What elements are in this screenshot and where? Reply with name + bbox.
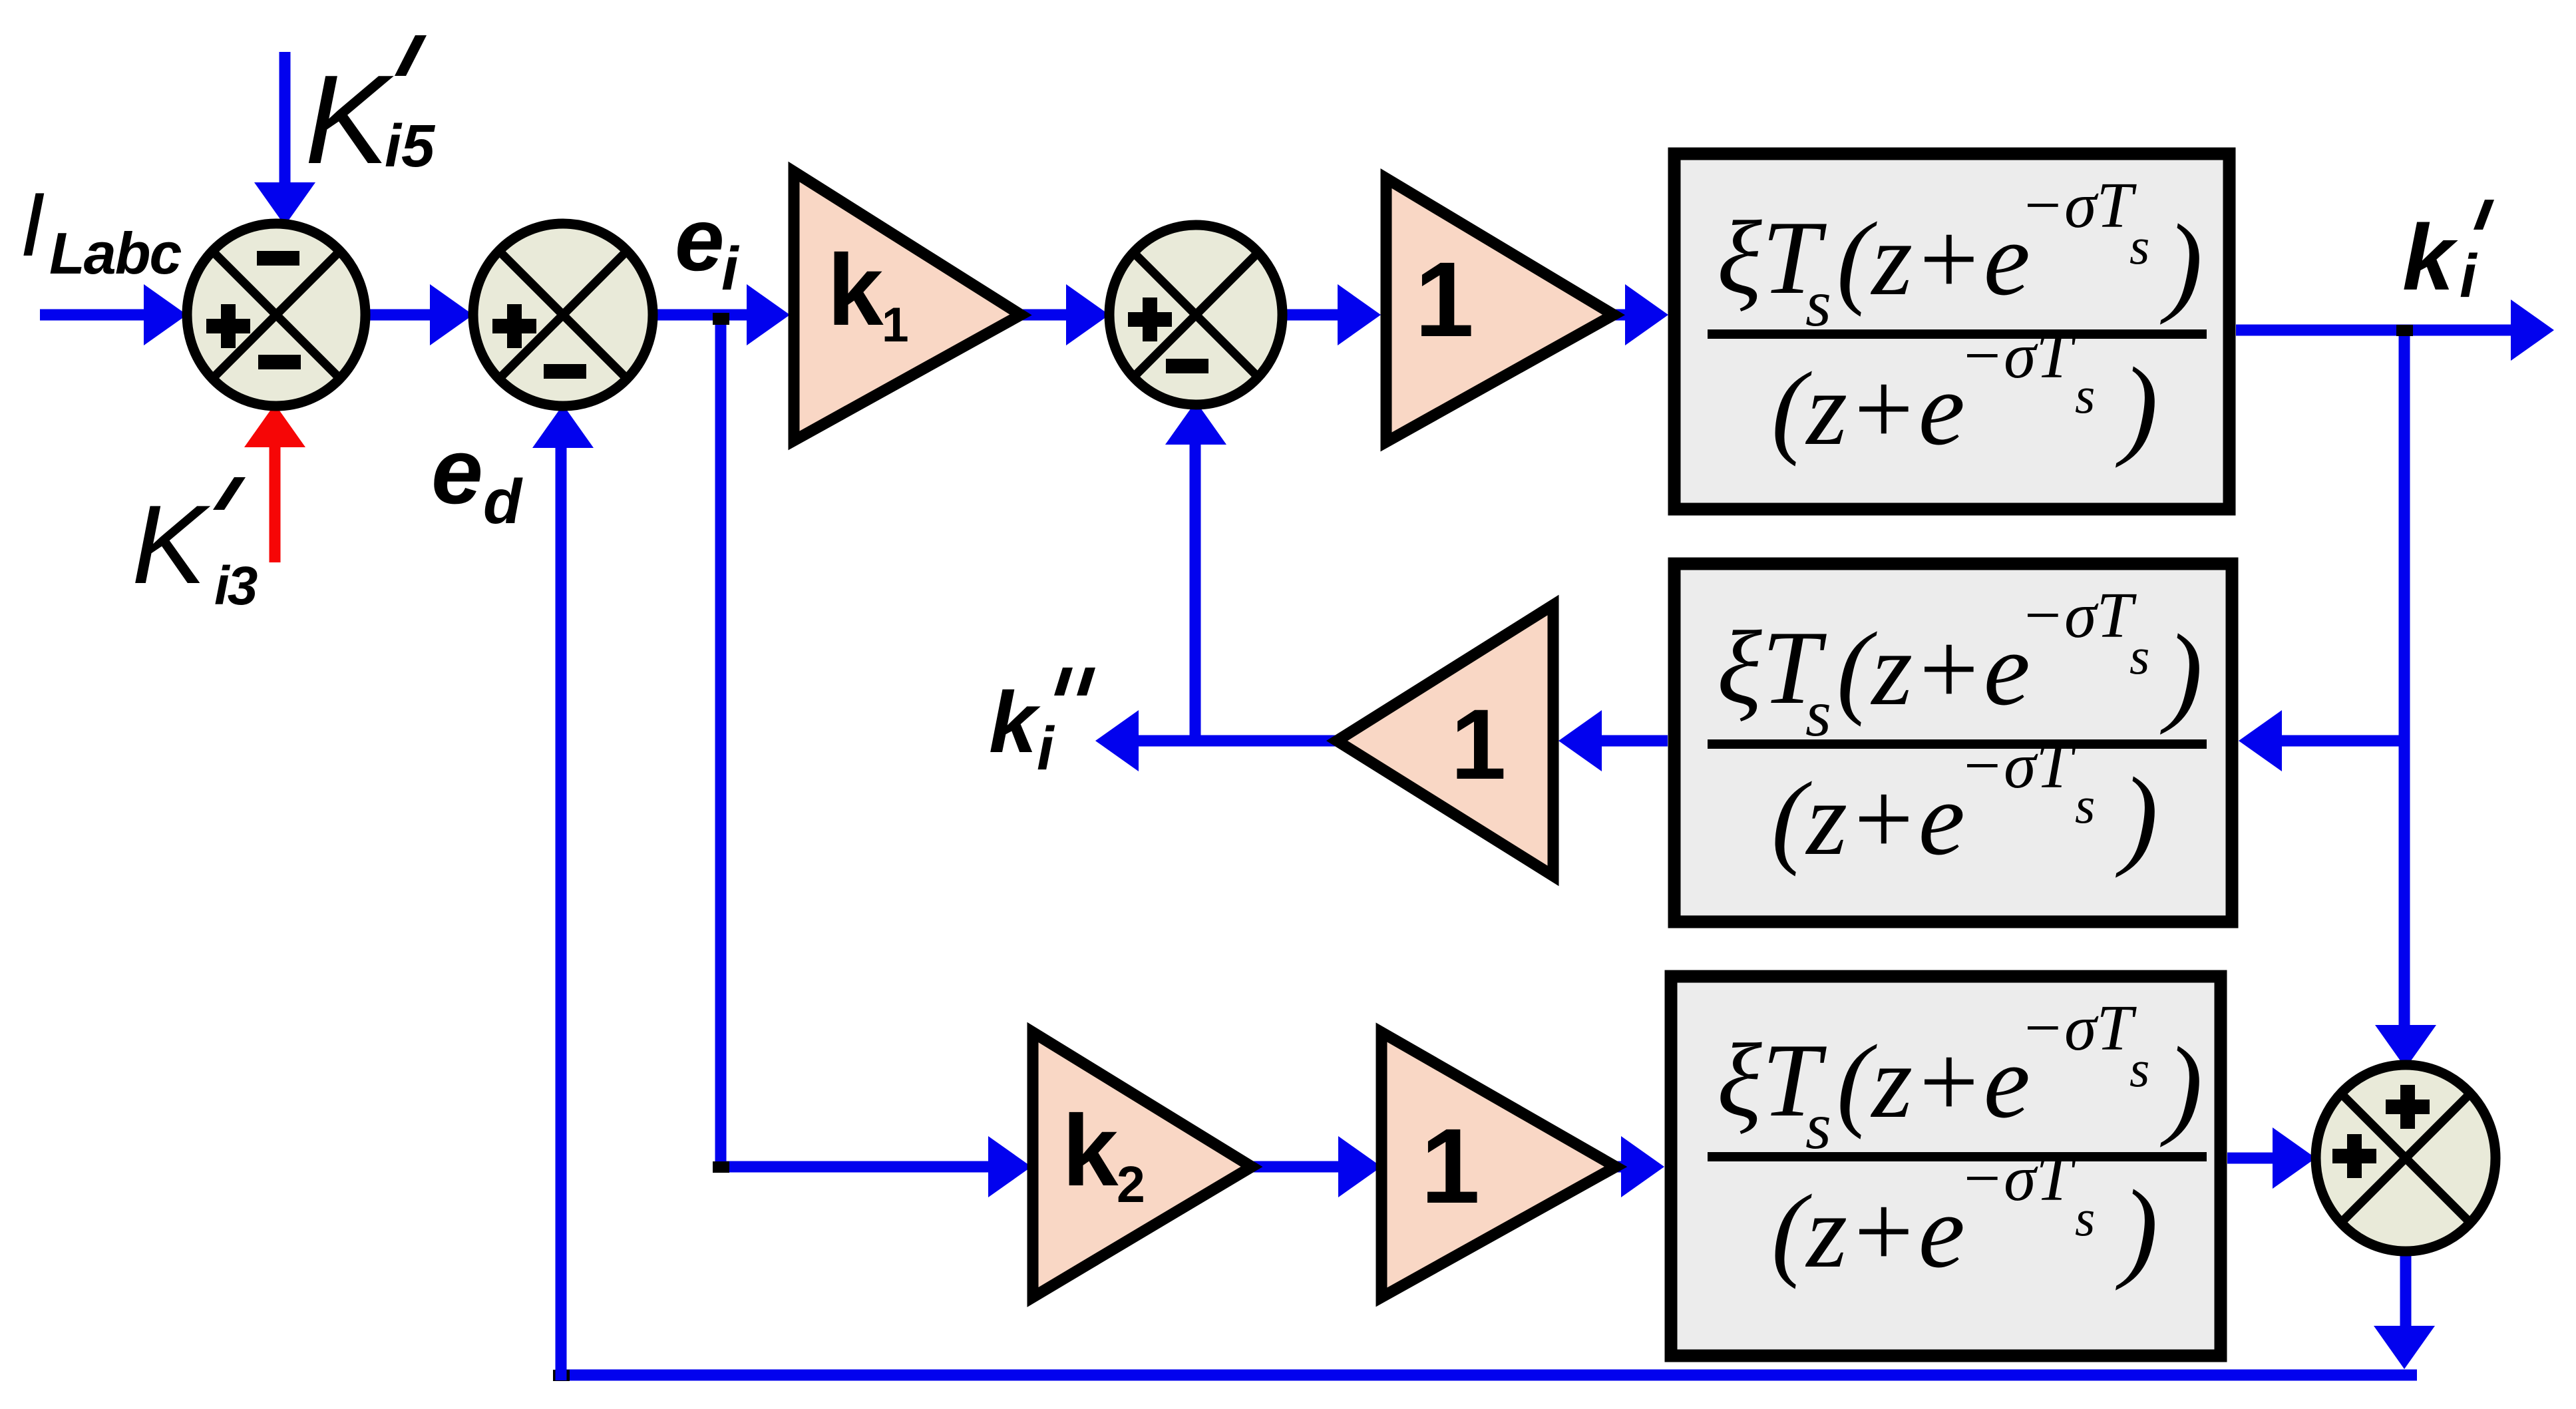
- node ki' branch junction: [2396, 325, 2413, 336]
- svg-text:(z+e: (z+e: [1771, 1173, 1965, 1290]
- svg-text:s: s: [2075, 776, 2095, 834]
- arrow into block3 left: [1621, 1136, 1664, 1197]
- node bottom left corner: [553, 1370, 570, 1381]
- summing junction S1: [187, 224, 365, 406]
- wire k2 to T4: [1250, 1161, 1341, 1173]
- arrow into S2 bottom: [532, 405, 594, 448]
- svg-text:I: I: [20, 174, 45, 275]
- block3 transfer function: [1671, 976, 2221, 1356]
- svg-text:1: 1: [882, 298, 909, 352]
- svg-text:(z+e: (z+e: [1837, 1024, 2030, 1140]
- svg-text:−σT: −σT: [2020, 580, 2137, 652]
- wire block3 to S4: [2227, 1153, 2275, 1164]
- wire S4 output down: [2400, 1248, 2412, 1328]
- gain triangle k1: [794, 172, 1021, 441]
- wire T4 to block3: [1615, 1161, 1624, 1173]
- svg-text:1: 1: [1421, 1106, 1480, 1225]
- S3 minus bottom: [1166, 359, 1208, 373]
- arrow into block1 left: [1625, 284, 1668, 345]
- svg-text:s: s: [1805, 266, 1831, 340]
- svg-text:): ): [2116, 345, 2158, 469]
- svg-text:): ): [2160, 1024, 2203, 1148]
- svg-text:): ): [2160, 612, 2203, 735]
- arrow output right: [2511, 300, 2554, 361]
- wire T3 tip to ki'': [1139, 735, 1337, 747]
- wire right branch down to S4: [2399, 330, 2410, 1028]
- arrow into k1 left: [747, 284, 790, 345]
- svg-text:i: i: [2460, 242, 2478, 310]
- svg-text:s: s: [2129, 1040, 2149, 1098]
- svg-text:(z+e: (z+e: [1837, 201, 2030, 317]
- arrow into S2 left: [430, 284, 473, 345]
- S1 minus bottom: [258, 355, 301, 369]
- block2 transfer function: [1674, 564, 2232, 922]
- summing junction S2: [473, 224, 653, 406]
- S4 plus left: [2332, 1149, 2376, 1163]
- arrow into k2 left: [988, 1136, 1031, 1197]
- arrow into block2 right: [2239, 710, 2282, 771]
- arrow into S3 left: [1066, 284, 1109, 345]
- svg-text:−σT: −σT: [1960, 320, 2076, 392]
- S2 plus left: [492, 319, 536, 333]
- svg-text:s: s: [2075, 1189, 2095, 1247]
- wire S1 to S2: [365, 309, 433, 321]
- svg-text:s: s: [2129, 217, 2149, 275]
- svg-text:(z+e: (z+e: [1771, 351, 1965, 467]
- svg-text:i5: i5: [385, 113, 436, 180]
- wire left vertical up to S2 (ed): [556, 447, 567, 1380]
- svg-text:i: i: [721, 235, 740, 303]
- arrow ki'' left end: [1095, 710, 1139, 771]
- svg-text:d: d: [483, 467, 523, 537]
- arrow into S3 bottom: [1165, 401, 1226, 445]
- node ei branch junction: [713, 313, 729, 325]
- gain triangle 1 bottom (T4): [1381, 1032, 1616, 1297]
- S1 minus top: [257, 251, 299, 266]
- svg-text:−σT: −σT: [2020, 992, 2137, 1064]
- arrow into S1 top: [254, 182, 315, 226]
- svg-text:(z+e: (z+e: [1837, 611, 2030, 727]
- arrow into S1 left: [144, 284, 187, 345]
- svg-text:i3: i3: [214, 556, 258, 616]
- svg-text:): ): [2116, 1167, 2158, 1291]
- arrow down onto bottom line: [2374, 1326, 2435, 1369]
- red arrow into S1 bottom: [244, 404, 305, 447]
- svg-text:K: K: [132, 482, 211, 607]
- S1 plus left: [206, 319, 250, 333]
- arrow into S4 left: [2273, 1127, 2316, 1189]
- svg-text:s: s: [1805, 1089, 1831, 1163]
- block1 transfer function: [1674, 154, 2229, 509]
- svg-text:k: k: [1062, 1094, 1119, 1207]
- S3 plus left: [1128, 312, 1172, 327]
- summing junction S3: [1109, 225, 1282, 405]
- node k2 corner junction: [713, 1161, 729, 1173]
- wire S2 to k1: [653, 309, 748, 321]
- svg-text:): ): [2160, 202, 2203, 325]
- svg-text:K: K: [305, 49, 394, 190]
- arrow into T4 left: [1338, 1136, 1381, 1197]
- svg-text:2: 2: [1117, 1156, 1145, 1213]
- S4 plus top: [2386, 1100, 2430, 1114]
- arrow into T2 left: [1338, 284, 1381, 345]
- svg-text:−σT: −σT: [1960, 1143, 2076, 1215]
- gain triangle k2: [1033, 1032, 1252, 1297]
- wire block1 output ki': [2236, 325, 2512, 336]
- svg-text:Labc: Labc: [49, 220, 181, 286]
- gain triangle 1 middle left-pointing (T3): [1337, 605, 1553, 876]
- svg-text:k: k: [989, 674, 1041, 771]
- svg-text:e: e: [675, 190, 725, 290]
- arrow into T3 base: [1559, 710, 1602, 771]
- wire ILabc input: [40, 309, 145, 321]
- svg-text:): ): [2116, 755, 2158, 879]
- wire block2 to T3: [1602, 735, 1668, 747]
- svg-text:1: 1: [1451, 688, 1506, 800]
- svg-text:−σT: −σT: [1960, 730, 2076, 802]
- svg-text:(z+e: (z+e: [1771, 761, 1965, 877]
- wire up from ki'' line to S3 bottom: [1190, 443, 1201, 741]
- svg-text:e: e: [431, 419, 483, 523]
- svg-text:s: s: [2075, 366, 2095, 424]
- wire k1 to S3: [1019, 309, 1069, 321]
- wire S3 to T2: [1282, 309, 1340, 321]
- summing junction S4: [2316, 1065, 2495, 1251]
- svg-text:s: s: [2129, 627, 2149, 685]
- wire bottom feedback line: [561, 1375, 2417, 1378]
- svg-text:s: s: [1805, 676, 1831, 750]
- wire ei branch down and right to k2: [721, 315, 988, 1167]
- wire Ki3 red input: [270, 445, 281, 562]
- wire Ki5 vertical input: [279, 52, 291, 184]
- svg-text:i: i: [1037, 715, 1055, 783]
- svg-text:k: k: [827, 234, 884, 347]
- svg-text:1: 1: [1415, 240, 1474, 359]
- S2 minus bottom: [544, 364, 586, 379]
- arrow into S4 top: [2375, 1025, 2436, 1068]
- wire feedback into block2: [2282, 735, 2404, 747]
- gain triangle 1 top (T2): [1386, 178, 1614, 442]
- svg-text:k: k: [2402, 205, 2458, 309]
- wire T2 to block1: [1613, 309, 1628, 321]
- svg-text:−σT: −σT: [2020, 170, 2137, 242]
